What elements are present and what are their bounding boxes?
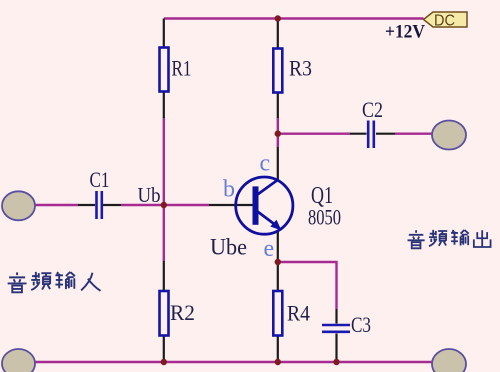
svg-text:Ub: Ub	[138, 183, 161, 207]
svg-text:8050: 8050	[308, 205, 341, 230]
svg-text:R4: R4	[287, 301, 310, 326]
svg-text:c: c	[260, 151, 271, 177]
svg-text:R2: R2	[170, 300, 195, 325]
svg-text:DC: DC	[434, 13, 455, 30]
svg-text:b: b	[223, 177, 235, 203]
svg-text:Ube: Ube	[210, 235, 247, 260]
svg-text:R1: R1	[172, 56, 192, 81]
svg-text:+12V: +12V	[385, 22, 425, 43]
svg-text:e: e	[264, 236, 275, 262]
svg-text:C1: C1	[90, 167, 110, 192]
svg-text:C2: C2	[362, 97, 383, 122]
svg-text:C3: C3	[351, 312, 371, 337]
svg-text:R3: R3	[289, 56, 312, 81]
